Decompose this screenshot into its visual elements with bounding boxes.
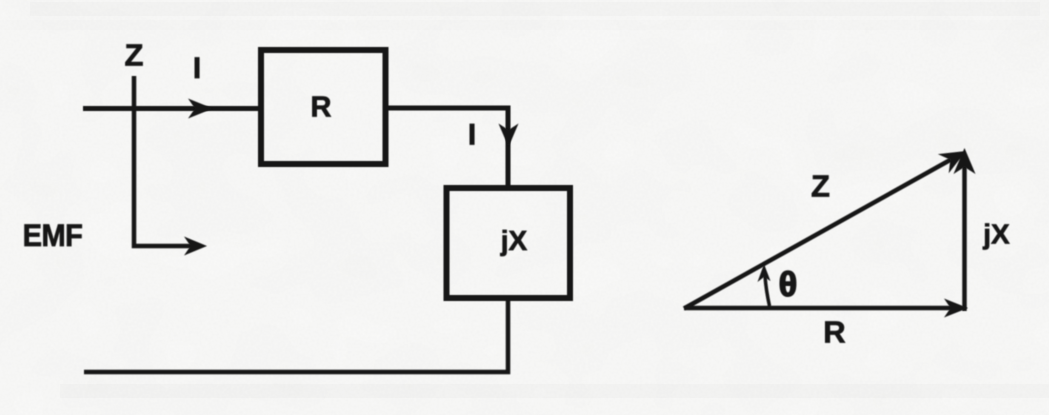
svg-text:I: I bbox=[193, 52, 201, 85]
arrowhead: triangle jX (up) bbox=[954, 148, 976, 174]
svg-text:I: I bbox=[468, 119, 476, 152]
wire: EMF top lead to resistor R bbox=[83, 106, 261, 111]
wire: R to jX corner bbox=[385, 108, 508, 188]
node Z: impedance looking-in marker with EMF reference arrow bbox=[134, 76, 196, 246]
reactance jX box bbox=[447, 188, 571, 298]
svg-text:EMF: EMF bbox=[23, 218, 83, 254]
arrowhead: triangle R (right) bbox=[944, 299, 968, 318]
triangle side R (base) bbox=[684, 306, 952, 311]
svg-text:θ: θ bbox=[779, 266, 797, 304]
svg-text:jX: jX bbox=[500, 225, 528, 256]
svg-text:R: R bbox=[311, 92, 332, 124]
arrowhead: current I into jX (down) bbox=[499, 124, 519, 148]
arrowhead: triangle Z (up-right) bbox=[938, 151, 966, 173]
resistor R1 box bbox=[261, 50, 386, 164]
triangle hypotenuse Z bbox=[684, 160, 951, 309]
svg-text:R: R bbox=[823, 315, 845, 350]
svg-text:Z: Z bbox=[811, 169, 830, 204]
arrowhead: EMF reference bbox=[184, 237, 207, 256]
arrowhead: current I into R bbox=[188, 99, 213, 119]
arrowhead: theta indicator (small, up) bbox=[758, 264, 771, 282]
svg-text:Z: Z bbox=[125, 38, 144, 73]
triangle side jX (vertical) bbox=[962, 166, 967, 311]
wire: jX to bottom return bbox=[84, 298, 508, 372]
angle theta indicator arc bbox=[765, 276, 770, 306]
svg-text:jX: jX bbox=[982, 219, 1010, 250]
